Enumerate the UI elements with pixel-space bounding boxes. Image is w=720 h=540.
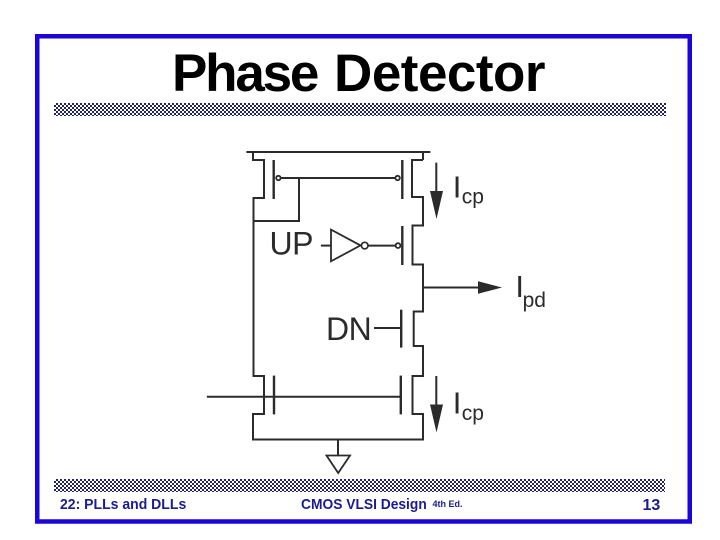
wire M1 gate-drain diode connection (254, 178, 300, 221)
svg-text:I: I (453, 169, 462, 204)
svg-text:I: I (453, 386, 462, 421)
svg-text:UP: UP (270, 226, 313, 262)
wire right branch stub from VDD (422, 151, 424, 160)
footer left: lecture name (60, 496, 186, 513)
title underline hatch bar (54, 103, 666, 116)
svg-text:DN: DN (326, 311, 371, 347)
footer center: book title (301, 496, 427, 513)
transistor M6 NMOS current mirror (bottom-right) (401, 376, 423, 441)
transistor M4 NMOS DN switch (401, 289, 423, 378)
wire DN label to M4 gate (374, 327, 400, 329)
footer center: edition superscript (433, 499, 463, 509)
current source arrow Icp (top) (430, 163, 443, 219)
wire inverter output to M3 gate (368, 245, 395, 247)
current source arrow Icp (bottom) (430, 376, 443, 433)
svg-text:cp: cp (462, 402, 484, 425)
wire bias input to mirror gates (207, 396, 400, 398)
transistor M5 NMOS current mirror (bottom-left) (253, 376, 274, 441)
label Ipd (515, 269, 546, 312)
title: Phase Detector (172, 43, 545, 104)
inverter U1 (321, 230, 368, 262)
svg-text:cp: cp (462, 186, 484, 209)
ground symbol (327, 440, 351, 474)
transistor M2 PMOS current mirror (top-right) (395, 160, 423, 227)
svg-text:pd: pd (523, 289, 546, 312)
transistor M1 PMOS diode-connected (top-left) (253, 160, 281, 222)
wire output node horizontal + arrow Ipd (423, 281, 502, 294)
wire GND bottom rail (252, 439, 424, 441)
wire left vertical rail (253, 221, 255, 377)
wire VDD top rail (246, 151, 430, 153)
wire left branch stub from VDD (252, 151, 254, 161)
footer hatch bar (54, 479, 665, 492)
transistor M3 PMOS UP switch (396, 226, 423, 289)
footer right: page number (643, 497, 661, 515)
wire current-mirror gate bus (M1 gate to M2 gate) (281, 177, 395, 179)
label Icp (bottom) (453, 386, 484, 425)
label Icp (top) (453, 169, 484, 208)
